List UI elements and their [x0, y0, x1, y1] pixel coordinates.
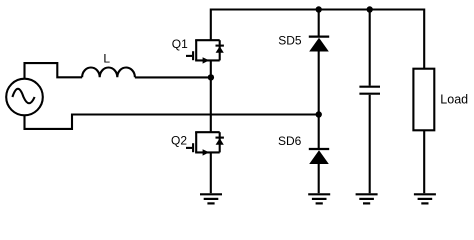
wire top rail to SD5 [318, 10, 320, 37]
Q2 source bar [196, 152, 220, 153]
AC source V1 sine symbol [12, 89, 34, 104]
diode SD6 triangle [309, 150, 329, 164]
ground below capacitor [356, 194, 378, 203]
svg-text:SD5: SD5 [278, 34, 302, 48]
Q2 drain bar [196, 131, 220, 132]
wire load to ground [423, 130, 425, 193]
Q2 gate bar [192, 143, 194, 152]
Q1 drain bar [196, 39, 220, 40]
wire Q2 source to ground [210, 152, 212, 193]
Q1 gate lead [186, 55, 192, 57]
capacitor C bottom plate [359, 93, 380, 95]
inductor L [82, 68, 135, 78]
Q1 body diode cathode bar [216, 45, 224, 47]
wire SD5 anode to node B to SD6 cathode [318, 51, 320, 149]
transistor Q2 [186, 131, 224, 155]
ground below Q2 [200, 194, 222, 203]
node A junction dot (Q1/Q2 midpoint) [208, 74, 214, 80]
capacitor C top plate [359, 86, 380, 88]
transistor Q1 [186, 39, 224, 63]
wire AC top to inductor (with jog) [25, 63, 83, 79]
wire top rail to capacitor [369, 10, 371, 86]
svg-text:SD6: SD6 [278, 134, 302, 148]
Q1 source bar [196, 60, 220, 61]
svg-text:Q2: Q2 [171, 134, 187, 148]
Q2 body diode triangle [216, 138, 224, 144]
svg-text:Q1: Q1 [172, 37, 188, 51]
Q2 body diode branch [219, 132, 221, 152]
wire AC bottom to neutral (with jog) [25, 115, 319, 129]
Q1 gate bar [192, 51, 194, 60]
diode SD5 cathode bar [309, 35, 329, 37]
Q2 body diode cathode bar [216, 137, 224, 139]
Q2 source arrow [203, 149, 210, 155]
AC source V1 circle [6, 79, 43, 116]
svg-text:L: L [103, 51, 110, 65]
ground below SD6 [308, 194, 330, 203]
wire top rail (Q1 drain up, across, down to Load) [211, 10, 424, 69]
wire SD6 anode to ground [318, 164, 320, 194]
wire capacitor to ground [369, 95, 371, 193]
node B junction dot (neutral to SD leg midpoint) [316, 111, 322, 117]
wire inductor to half-bridge midpoint node [135, 76, 211, 78]
svg-text:Load: Load [440, 92, 468, 106]
Q2 channel bar [195, 132, 197, 152]
wire Q1 source to node A to Q2 drain (crossover over neutral, no dot) [210, 60, 212, 132]
ground below load [414, 194, 436, 203]
node D junction dot (top rail / capacitor) [367, 6, 373, 12]
node C junction dot (top rail / SD5) [316, 6, 322, 12]
Q1 source arrow [203, 57, 210, 63]
Q1 body diode triangle [216, 46, 224, 52]
Q1 channel bar [195, 40, 197, 60]
Q1 body diode branch [219, 40, 221, 60]
diode SD6 cathode bar [309, 148, 329, 150]
load resistor box [413, 69, 434, 131]
Q2 gate lead [186, 147, 192, 149]
diode SD5 triangle [309, 38, 329, 52]
